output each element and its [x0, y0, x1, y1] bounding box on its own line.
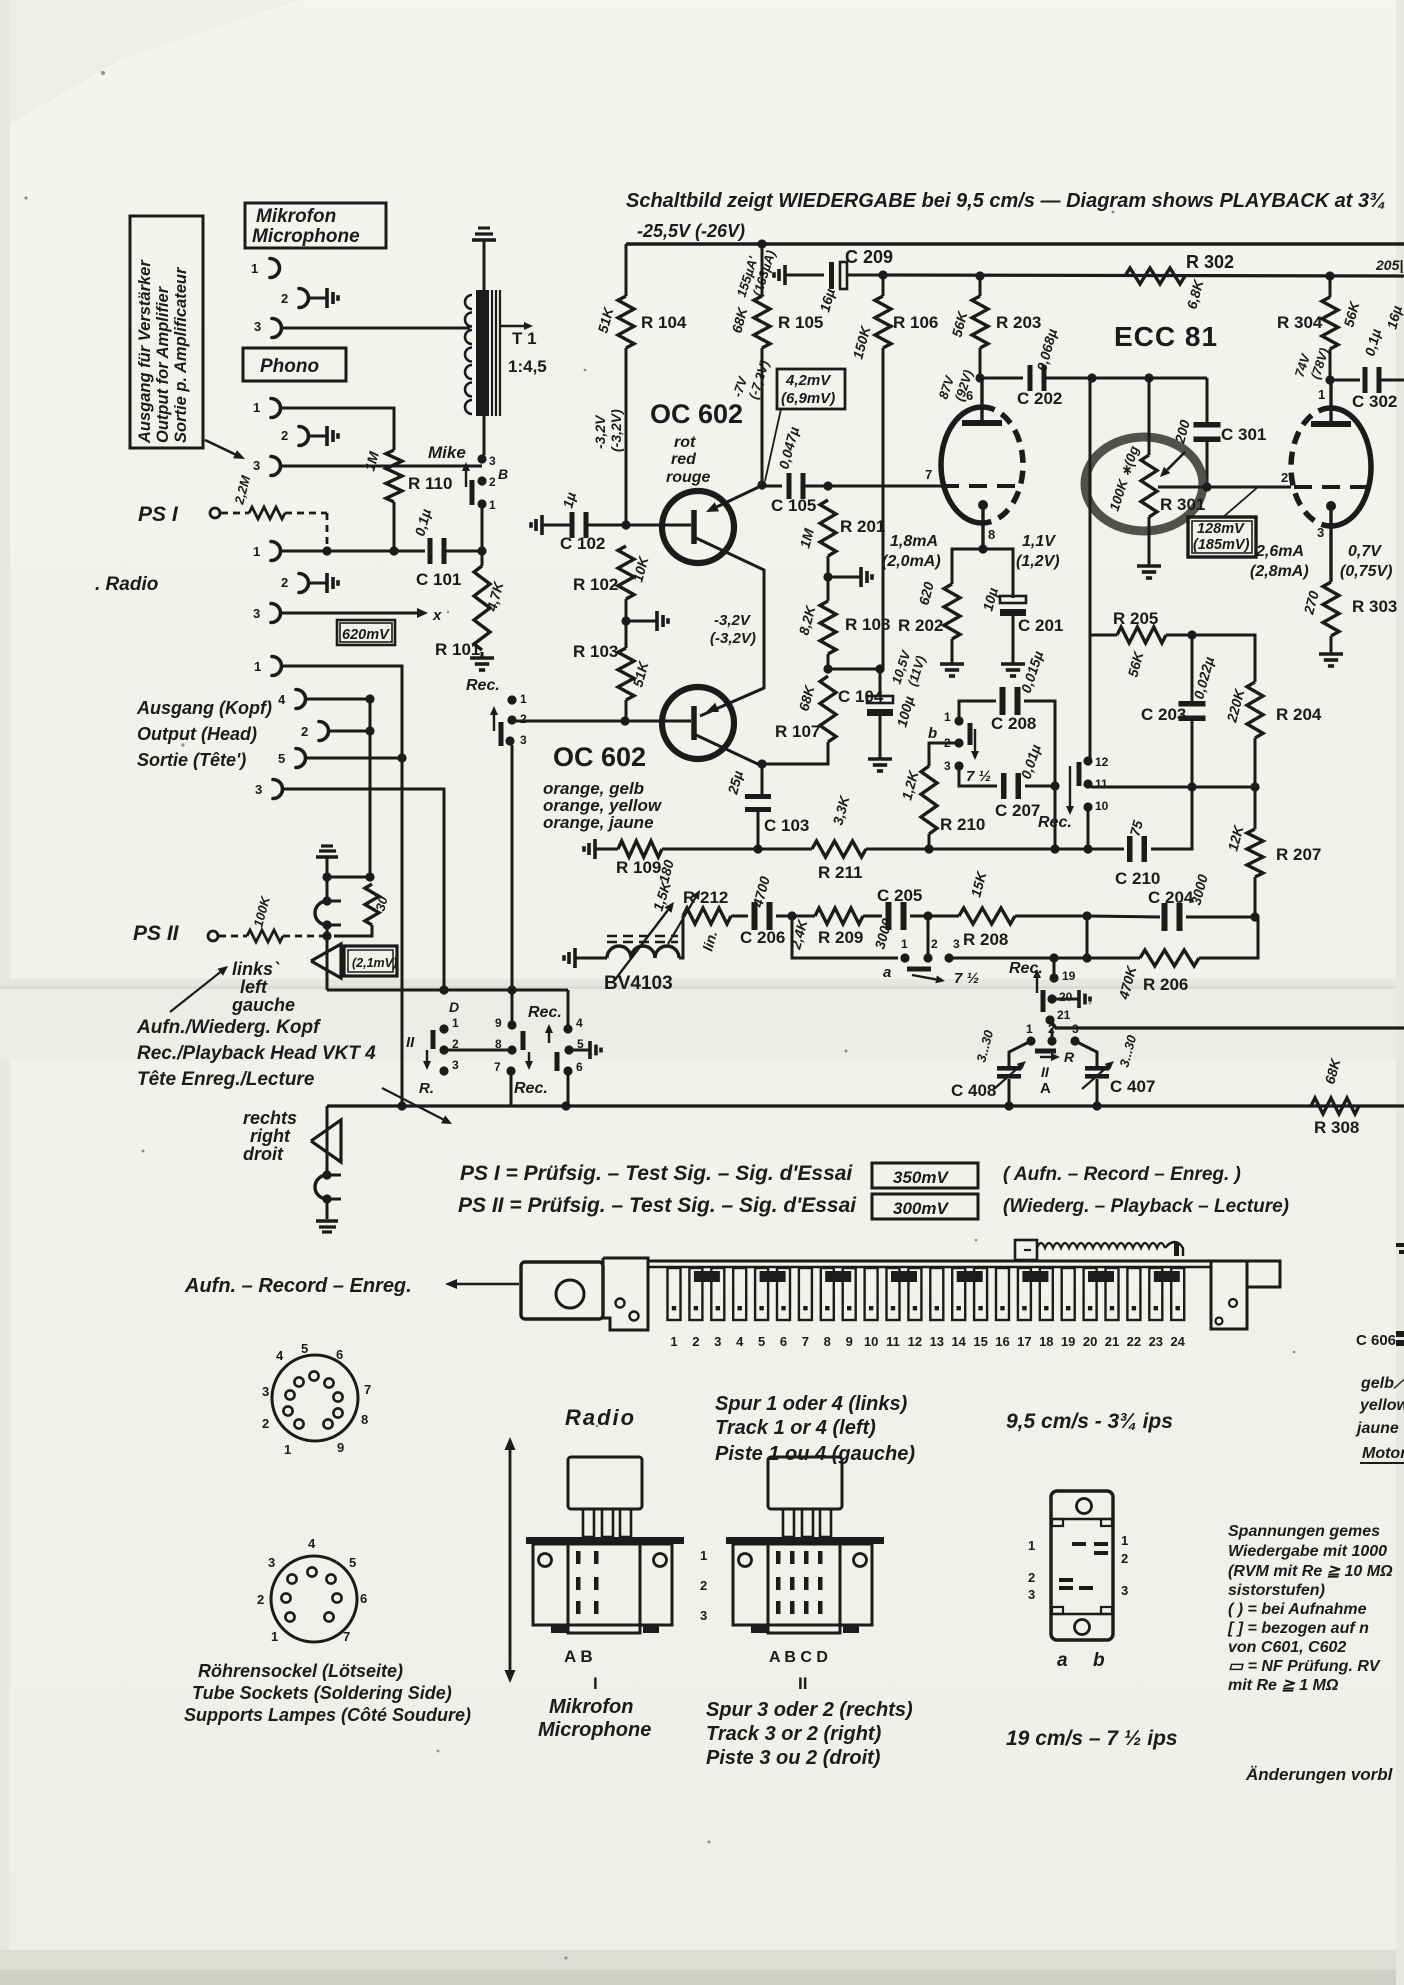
svg-text:C 203: C 203 — [1141, 705, 1186, 724]
svg-text:13: 13 — [930, 1334, 944, 1349]
svg-text:R 109: R 109 — [616, 858, 661, 877]
svg-text:15: 15 — [973, 1334, 987, 1349]
svg-text:5: 5 — [349, 1555, 356, 1570]
svg-text:5: 5 — [758, 1334, 765, 1349]
wire ground to C102 — [547, 524, 570, 527]
svg-text:R 211: R 211 — [818, 863, 862, 882]
capacitor C205 — [886, 902, 892, 930]
svg-text:3: 3 — [1121, 1583, 1128, 1598]
switch mid pin 7 — [506, 1066, 515, 1075]
switch b arrow — [974, 729, 976, 751]
resistor R204 — [1247, 682, 1263, 738]
svg-text:3: 3 — [1317, 525, 1324, 540]
svg-text:2: 2 — [301, 724, 308, 739]
switch Rec arrow — [493, 715, 495, 731]
wire cathode to C201 — [983, 549, 1013, 598]
wire Phono pin1 to R110 — [280, 408, 394, 450]
switch pin 19 — [1053, 958, 1056, 978]
svg-text:R 208: R 208 — [963, 930, 1008, 949]
svg-text:Mike: Mike — [428, 443, 466, 462]
resistor R106 — [882, 275, 885, 296]
switch a pin 1 — [900, 953, 909, 962]
V1b cathode — [1326, 501, 1336, 511]
ground left of R109 — [595, 848, 600, 851]
wire pin5 join x402 — [305, 757, 402, 760]
svg-text:C 201: C 201 — [1018, 616, 1063, 635]
svg-text:1: 1 — [1318, 387, 1325, 402]
wire T1 to Mike switch pin3 — [483, 416, 486, 455]
svg-text:3: 3 — [452, 1058, 459, 1072]
callout line to 4,2mV box — [765, 409, 781, 481]
wire R105 to emitter node — [761, 348, 764, 485]
node rail R105 — [757, 239, 766, 248]
svg-text:gauche: gauche — [231, 995, 295, 1015]
V1a plate — [980, 378, 983, 420]
tube socket noval (9 pin) — [272, 1355, 358, 1441]
wire C208 to column — [1024, 701, 1055, 786]
resistor R211 — [812, 841, 866, 857]
svg-text:Track 3 or 2 (right): Track 3 or 2 (right) — [706, 1723, 882, 1745]
resistor R105 — [761, 244, 764, 296]
wire R301 to ground — [1148, 517, 1151, 560]
svg-text:1: 1 — [520, 692, 527, 706]
svg-text:C 101: C 101 — [416, 570, 461, 589]
wire R208 to node — [1015, 915, 1087, 918]
svg-text:20: 20 — [1083, 1334, 1097, 1349]
svg-text:PS II = Prüfsig. – Test Sig. –: PS II = Prüfsig. – Test Sig. – Sig. d'Es… — [458, 1194, 857, 1217]
svg-text:D: D — [449, 999, 459, 1015]
svg-text:b: b — [1093, 1650, 1105, 1671]
switch mid bar + arrow — [521, 1031, 526, 1050]
capacitor C301 — [1206, 378, 1209, 424]
ground below lower head — [316, 1219, 338, 1223]
svg-text:Rec.: Rec. — [466, 677, 500, 694]
svg-text:Piste 1 ou 4 (gauche): Piste 1 ou 4 (gauche) — [715, 1443, 915, 1465]
wire R212 to C206 — [731, 915, 748, 918]
wire R106 down to C104 node — [882, 348, 885, 486]
svg-text:(-3,2V): (-3,2V) — [710, 630, 756, 647]
transformer T1 — [476, 290, 489, 416]
wire Phono pin3 to Mike switch — [280, 465, 482, 468]
switch II pin 1 — [439, 1024, 448, 1033]
V1a grid dash — [941, 484, 1020, 488]
double arrow — [509, 1450, 512, 1560]
wire wiper to V1b grid — [1158, 486, 1291, 489]
svg-text:4: 4 — [736, 1334, 744, 1349]
wire pin6 to bus — [567, 1071, 570, 1106]
switch arrow up — [1036, 978, 1038, 993]
ground above T1 — [478, 227, 490, 230]
transistor Q1 OC602 — [662, 491, 734, 563]
wire R205 node to R204 — [1192, 635, 1255, 682]
inductor BV4103 — [607, 946, 631, 958]
svg-text:A B: A B — [564, 1647, 593, 1666]
svg-text:20: 20 — [1059, 990, 1073, 1004]
svg-text:sistorstufen): sistorstufen) — [1228, 1582, 1325, 1599]
switch b pin 1 — [954, 716, 963, 725]
wire R304 to plate node — [1329, 349, 1332, 380]
svg-text:right: right — [250, 1126, 291, 1146]
node PS I / Radio junction — [322, 546, 331, 555]
switch b contact bar — [968, 723, 973, 745]
svg-text:2: 2 — [281, 428, 288, 443]
V1b grid dash — [1294, 485, 1371, 489]
resistor 2,2M (PS I feed, dashed) — [221, 512, 249, 515]
svg-text:R 212: R 212 — [683, 888, 728, 907]
svg-text:OC 602: OC 602 — [553, 742, 646, 772]
capacitor C210 — [1127, 836, 1133, 862]
wire plate line to pot and C301 — [1090, 377, 1207, 380]
svg-text:1: 1 — [944, 710, 951, 724]
wire C105 to R201 node — [805, 485, 941, 488]
svg-text:gelb⟋: gelb⟋ — [1360, 1375, 1404, 1392]
svg-text:1: 1 — [271, 1629, 278, 1644]
wire pin12 up column — [1089, 378, 1092, 635]
svg-text:C 204: C 204 — [1148, 888, 1194, 907]
svg-text:links`: links` — [232, 959, 280, 979]
switch bank bracket — [603, 1258, 648, 1330]
svg-text:Röhrensockel (Lötseite): Röhrensockel (Lötseite) — [198, 1661, 403, 1681]
svg-text:C 606: C 606 — [1356, 1332, 1396, 1349]
svg-text:5: 5 — [278, 751, 285, 766]
svg-text:205|: 205| — [1375, 257, 1403, 273]
svg-text:yellow: yellow — [1359, 1397, 1404, 1414]
wire pin11 to R204 node — [1088, 784, 1192, 787]
svg-text:4: 4 — [308, 1536, 316, 1551]
switch bank spring — [1015, 1240, 1037, 1260]
svg-text:Rec./Playback Head VKT 4: Rec./Playback Head VKT 4 — [137, 1043, 376, 1064]
switch II-A pin 1 — [1026, 1036, 1035, 1045]
svg-text:2: 2 — [931, 937, 938, 951]
switch II pin 2 — [439, 1045, 448, 1054]
svg-text:Spur 1 oder 4 (links): Spur 1 oder 4 (links) — [715, 1393, 908, 1415]
svg-text:11: 11 — [1095, 777, 1108, 791]
right edge fragment — [1396, 1243, 1404, 1247]
svg-text:droit: droit — [243, 1144, 284, 1164]
svg-text:-3,2V: -3,2V — [592, 414, 608, 449]
svg-text:2: 2 — [1121, 1551, 1128, 1566]
svg-text:R 302: R 302 — [1186, 252, 1234, 272]
svg-text:BV4103: BV4103 — [604, 973, 673, 994]
svg-text:1,1V: 1,1V — [1022, 533, 1056, 550]
wire C101 to R101 node — [444, 550, 482, 553]
svg-text:1: 1 — [1121, 1533, 1128, 1548]
svg-text:PS II: PS II — [133, 922, 180, 945]
svg-text:R 104: R 104 — [641, 313, 687, 332]
switch II-A pin 3 — [1070, 1036, 1079, 1045]
svg-text:10: 10 — [864, 1334, 878, 1349]
svg-text:2: 2 — [1281, 470, 1288, 485]
svg-text:C 102: C 102 — [560, 534, 605, 553]
svg-text:(-3,2V): (-3,2V) — [608, 409, 624, 452]
svg-text:1: 1 — [489, 498, 496, 512]
node R108/C104 — [827, 654, 830, 669]
node R110 bottom junction — [389, 546, 398, 555]
svg-text:1: 1 — [254, 659, 261, 674]
svg-text:PS I = Prüfsig. – Test Sig. –: PS I = Prüfsig. – Test Sig. – Sig. d'Ess… — [460, 1162, 853, 1185]
svg-text:Sortie (Tête'): Sortie (Tête') — [137, 750, 246, 770]
ground left of C209 — [785, 274, 790, 277]
svg-text:4: 4 — [276, 1348, 284, 1363]
svg-text:( Aufn. – Record – Enreg. ): ( Aufn. – Record – Enreg. ) — [1003, 1164, 1241, 1185]
switch Rec arrow down — [1069, 766, 1071, 806]
wire pin1 to C208 — [959, 701, 996, 721]
svg-text:Piste 3 ou 2 (droit): Piste 3 ou 2 (droit) — [706, 1747, 881, 1769]
record/playback head upper (left) — [315, 901, 327, 925]
wire coil to R212 — [679, 916, 683, 958]
wire cathode to R202 — [952, 549, 983, 584]
svg-text:6: 6 — [336, 1347, 343, 1362]
switch a pin 2 — [923, 953, 932, 962]
wire pin4 down x370 — [305, 699, 370, 877]
wire Mikrofon pin3 to T1 — [281, 327, 470, 330]
svg-text:-25,5V (-26V): -25,5V (-26V) — [637, 221, 745, 241]
resistor R303 — [1323, 582, 1339, 636]
Q2 collector wire to C103 — [696, 735, 762, 797]
svg-text:B: B — [498, 466, 508, 482]
svg-text:6: 6 — [576, 1060, 583, 1074]
triode V1a ECC81 — [941, 407, 982, 523]
svg-text:3: 3 — [944, 759, 951, 773]
svg-text:4,2mV: 4,2mV — [785, 372, 832, 389]
svg-text:Tête Enreg./Lecture: Tête Enreg./Lecture — [137, 1069, 315, 1090]
wire R203 to plate node — [979, 348, 982, 378]
resistor R205 — [1090, 634, 1117, 637]
svg-text:A: A — [1040, 1080, 1051, 1097]
svg-text:Motor: Motor — [1362, 1445, 1404, 1462]
svg-text:Sortie p. Amplificateur: Sortie p. Amplificateur — [172, 266, 190, 443]
svg-text:2: 2 — [692, 1334, 699, 1349]
svg-text:3: 3 — [520, 733, 527, 747]
svg-text:C 209: C 209 — [845, 247, 893, 267]
svg-text:9,5 cm/s - 3¾ ips: 9,5 cm/s - 3¾ ips — [1006, 1410, 1173, 1433]
box 300mV — [872, 1194, 978, 1219]
svg-text:1: 1 — [901, 937, 908, 951]
switch pin 20 — [1047, 994, 1056, 1003]
svg-text:PS I: PS I — [138, 503, 179, 526]
svg-text:Rec.: Rec. — [514, 1080, 548, 1097]
svg-text:3: 3 — [253, 458, 260, 473]
wire Radio pin3 arrow to x — [280, 612, 417, 615]
svg-text:Output for Amplifier: Output for Amplifier — [154, 285, 172, 443]
box 128mV (185mV) — [1188, 517, 1256, 557]
switch II-A bar + arrow R — [1035, 1049, 1056, 1054]
capacitor C209 electrolytic — [829, 262, 834, 289]
svg-text:C 206: C 206 — [740, 928, 785, 947]
switch Mike contact bar — [470, 480, 475, 505]
arrow to head (links) — [170, 972, 220, 1012]
switch Mike pin 3 — [477, 454, 486, 463]
wire node down to switch a pin2 — [927, 916, 930, 958]
wire C209 line to right — [883, 275, 1404, 276]
svg-text:R 106: R 106 — [893, 313, 938, 332]
capacitor C102 — [570, 512, 575, 538]
switch mid pin 9 — [507, 1020, 516, 1029]
node cathode — [978, 544, 987, 553]
svg-text:10: 10 — [1095, 799, 1109, 813]
capacitor C202 — [980, 377, 1023, 380]
svg-text:R.: R. — [419, 1080, 434, 1097]
svg-text:2: 2 — [281, 575, 288, 590]
svg-text:6: 6 — [780, 1334, 787, 1349]
wire node to Q1 base — [626, 524, 691, 527]
svg-text:II: II — [406, 1034, 415, 1051]
svg-text:7: 7 — [343, 1629, 350, 1644]
svg-text:8: 8 — [495, 1037, 502, 1051]
wire pin3 to C207 — [959, 766, 997, 786]
svg-text:C 207: C 207 — [995, 801, 1040, 820]
svg-text:b: b — [928, 725, 937, 742]
svg-text:R 207: R 207 — [1276, 845, 1321, 864]
svg-text:350mV: 350mV — [893, 1168, 949, 1187]
svg-text:7: 7 — [925, 467, 932, 482]
switch right pin 6 — [563, 1066, 572, 1075]
svg-text:R 301: R 301 — [1160, 495, 1205, 514]
switch right arrow + bar — [548, 1033, 550, 1043]
capacitor C103 electrolytic — [745, 794, 771, 799]
ground left of C102 — [542, 524, 547, 527]
resistor R104 — [625, 244, 628, 296]
resistor R207 — [1254, 787, 1257, 829]
switch bank right end plate — [1211, 1261, 1247, 1329]
switch II pin 3 — [439, 1066, 448, 1075]
wire link to resistor 30 — [327, 876, 370, 879]
capacitor C201 electrolytic — [1000, 596, 1026, 603]
wire Rec pin2 to Q2 base — [512, 720, 691, 723]
svg-text:1:4,5: 1:4,5 — [508, 357, 547, 376]
svg-text:3: 3 — [489, 454, 496, 468]
potentiometer R301 circled — [1085, 437, 1203, 531]
svg-text:(2,1mV): (2,1mV) — [352, 956, 397, 970]
svg-text:Aufn. – Record – Enreg.: Aufn. – Record – Enreg. — [184, 1275, 412, 1297]
svg-text:Änderungen vorbl: Änderungen vorbl — [1245, 1765, 1394, 1784]
svg-text:R 103: R 103 — [573, 642, 618, 661]
svg-text:x: x — [432, 607, 442, 624]
svg-text:C 104: C 104 — [838, 687, 884, 706]
wire pin2 join x370 — [328, 730, 370, 733]
svg-text:1: 1 — [253, 400, 260, 415]
svg-text:3: 3 — [714, 1334, 721, 1349]
svg-text:(6,9mV): (6,9mV) — [781, 390, 835, 407]
svg-text:7: 7 — [802, 1334, 809, 1349]
svg-text:5: 5 — [301, 1341, 308, 1356]
svg-text:left: left — [240, 977, 268, 997]
resistor R208 — [959, 908, 1015, 924]
switch right pin 4 — [563, 1024, 572, 1033]
svg-text:8: 8 — [824, 1334, 831, 1349]
svg-text:(0,75V): (0,75V) — [1340, 563, 1392, 580]
svg-text:II: II — [1041, 1064, 1050, 1080]
capacitor C207 — [1001, 773, 1007, 799]
svg-text:1: 1 — [253, 544, 260, 559]
svg-text:19: 19 — [1062, 969, 1076, 983]
svg-text:22: 22 — [1127, 1334, 1141, 1349]
switch Rec pin 1 — [507, 695, 516, 704]
wire C205 to node — [910, 915, 959, 918]
ground left of BV4103 — [575, 957, 580, 960]
capacitor C204 — [1162, 903, 1168, 931]
svg-text:2: 2 — [520, 712, 527, 726]
svg-text:2,6mA: 2,6mA — [1255, 543, 1304, 560]
svg-text:19: 19 — [1061, 1334, 1075, 1349]
wire pin10 to bus — [1087, 807, 1090, 849]
box 620mV — [337, 620, 395, 645]
capacitor C105 — [762, 485, 782, 488]
wire x512 from Rec switch down — [511, 745, 514, 990]
svg-text:C 208: C 208 — [991, 714, 1036, 733]
arrow to rechts — [382, 1088, 443, 1119]
resistor R206 — [1087, 957, 1140, 960]
svg-text:C 407: C 407 — [1110, 1077, 1155, 1096]
svg-text:2: 2 — [281, 291, 288, 306]
svg-text:Mikrofon: Mikrofon — [256, 206, 336, 227]
Q2 emitter arrowhead — [717, 688, 764, 707]
svg-text:ECC 81: ECC 81 — [1114, 321, 1218, 352]
Q1 collector wire to Q2 emitter — [696, 538, 764, 716]
svg-text:rouge: rouge — [666, 469, 711, 486]
wire R104 to C102 node — [625, 348, 628, 525]
svg-text:R 101: R 101 — [435, 640, 480, 659]
switch II bar + arrow — [431, 1030, 436, 1049]
svg-text:8: 8 — [361, 1412, 368, 1427]
svg-text:C 408: C 408 — [951, 1081, 996, 1100]
svg-text:rot: rot — [674, 434, 696, 451]
svg-text:23: 23 — [1149, 1334, 1163, 1349]
svg-text:3: 3 — [262, 1384, 269, 1399]
resistor R108 — [820, 601, 836, 654]
svg-text:2: 2 — [489, 475, 496, 489]
svg-text:1: 1 — [1028, 1538, 1035, 1553]
ground right of pin5 — [573, 1049, 585, 1052]
wire node down — [1086, 916, 1089, 958]
wire R207 to C204 bus — [1254, 877, 1257, 917]
switch b pin 2 — [954, 738, 963, 747]
svg-text:C 105: C 105 — [771, 496, 816, 515]
svg-text:OC 602: OC 602 — [650, 399, 743, 429]
svg-text:C 210: C 210 — [1115, 869, 1160, 888]
switch 19-21 bar — [1041, 990, 1046, 1012]
svg-text:-3,2V: -3,2V — [714, 612, 752, 629]
svg-text:Spannungen gemes: Spannungen gemes — [1228, 1523, 1380, 1540]
bottom bus wire — [327, 1104, 1404, 1107]
svg-text:Supports Lampes (Côté Soudure): Supports Lampes (Côté Soudure) — [184, 1705, 471, 1725]
svg-text:0,7V: 0,7V — [1348, 543, 1382, 560]
switch Mike arrow — [465, 471, 467, 487]
svg-text:Wiedergabe mit 1000: Wiedergabe mit 1000 — [1228, 1543, 1387, 1560]
svg-text:Radio: Radio — [565, 1405, 636, 1430]
svg-text:C 202: C 202 — [1017, 389, 1062, 408]
svg-text:1: 1 — [284, 1442, 291, 1457]
svg-text:Phono: Phono — [260, 356, 319, 377]
svg-text:8: 8 — [988, 527, 995, 542]
svg-text:3: 3 — [253, 606, 260, 621]
svg-text:II: II — [798, 1674, 807, 1693]
connector a/b — [1051, 1491, 1113, 1640]
svg-text:a: a — [883, 964, 891, 981]
resistor R203 — [979, 276, 982, 296]
ground top of head column (inverted) — [321, 844, 333, 847]
svg-text:jaune: jaune — [1355, 1420, 1399, 1437]
wire x512 to pin9 — [511, 990, 514, 1025]
node R102/R103 + ground stub — [625, 599, 628, 648]
node R201 ground stub — [827, 556, 830, 601]
wire R107 bottom to Q2 collector — [762, 742, 828, 764]
resistor R101 — [481, 551, 484, 566]
resistor R209 — [815, 908, 863, 924]
svg-text:14: 14 — [951, 1334, 966, 1349]
svg-text:Aufn./Wiederg. Kopf: Aufn./Wiederg. Kopf — [136, 1017, 321, 1038]
R301 wiper arrow — [1167, 452, 1185, 470]
